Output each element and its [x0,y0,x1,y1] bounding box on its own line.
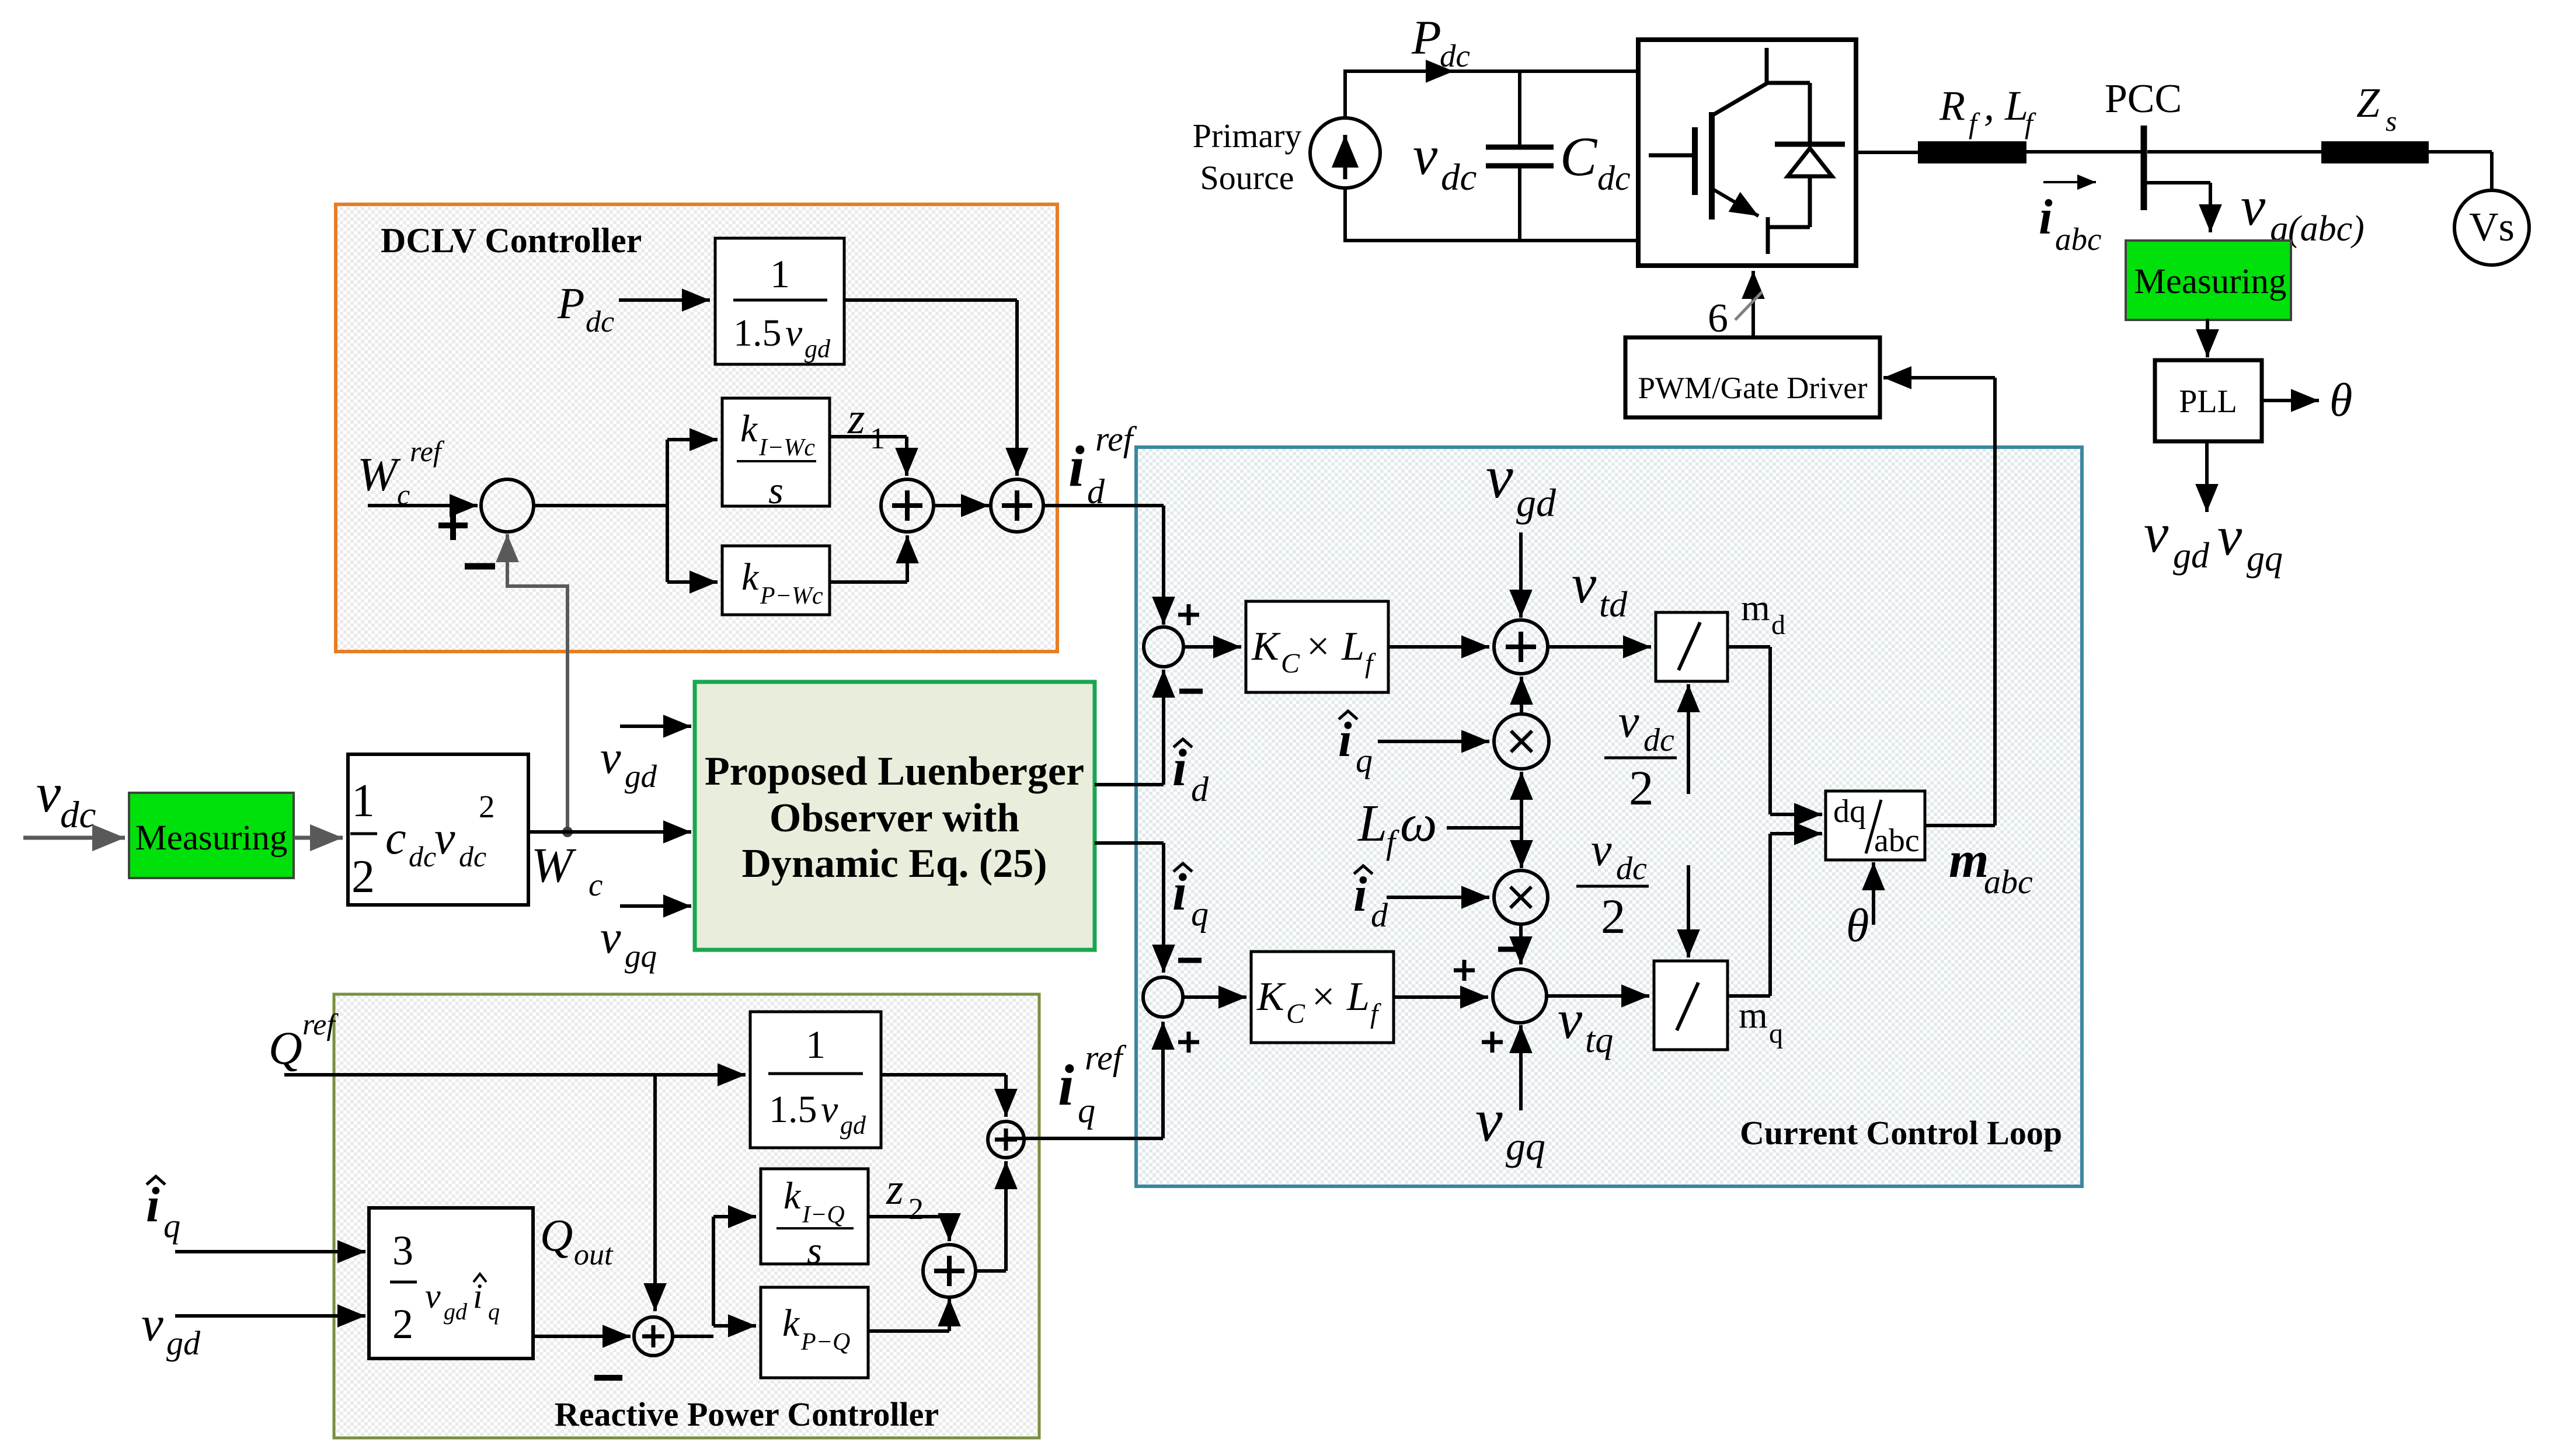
svg-text:Proposed Luenberger: Proposed Luenberger [705,749,1084,794]
svg-text:I−Wc: I−Wc [758,434,815,461]
svg-text:d: d [1771,609,1785,640]
svg-text:s: s [768,469,783,512]
svg-text:Reactive Power Controller: Reactive Power Controller [555,1395,939,1433]
svg-text:v: v [1486,443,1513,511]
svg-text:PCC: PCC [2105,76,2182,121]
svg-text:1: 1 [351,775,375,827]
svg-text:dq: dq [1833,793,1866,830]
svg-text:z: z [847,394,865,443]
svg-text:v: v [1475,1086,1503,1154]
svg-text:C: C [1281,648,1300,679]
svg-text:v: v [1591,824,1612,876]
svg-text:v: v [1572,553,1597,615]
svg-text:dc: dc [409,840,436,873]
svg-text:2: 2 [392,1301,413,1347]
svg-text:q: q [488,1298,500,1325]
svg-text:K: K [1251,624,1281,669]
svg-text:C: C [1286,998,1305,1029]
svg-text:Q: Q [269,1023,302,1074]
svg-text:1.5: 1.5 [769,1088,817,1131]
svg-text:Q: Q [540,1210,573,1260]
svg-text:Measuring: Measuring [2134,262,2287,301]
svg-text:DCLV Controller: DCLV Controller [381,221,642,260]
svg-text:Source: Source [1200,159,1294,197]
svg-text:ω: ω [1400,795,1437,852]
svg-text:K: K [1256,974,1286,1019]
svg-text:dc: dc [60,794,96,836]
svg-text:i: i [146,1178,160,1232]
svg-text:dc: dc [1643,722,1674,758]
svg-text:v: v [2217,505,2242,567]
svg-text:v: v [2144,502,2169,564]
svg-text:m: m [1949,832,1989,889]
svg-text:P: P [557,279,584,328]
svg-text:dc: dc [1597,159,1631,197]
svg-text:abc: abc [1984,863,2033,901]
svg-text:i: i [1338,712,1352,767]
svg-text:3: 3 [392,1227,413,1274]
svg-text:q: q [163,1207,180,1245]
svg-text:C: C [1560,126,1598,187]
svg-text:i: i [2039,190,2053,245]
svg-text:v: v [785,312,803,354]
svg-text:2: 2 [351,851,375,903]
svg-text:I−Q: I−Q [802,1201,845,1228]
svg-text:Observer with: Observer with [769,796,1019,841]
svg-text:v: v [600,912,621,963]
svg-text:k: k [740,407,758,450]
svg-text:abc: abc [1874,823,1920,859]
svg-text:L: L [1341,624,1364,669]
svg-text:Vs: Vs [2469,205,2515,250]
svg-text:1: 1 [770,252,790,296]
svg-text:1.5: 1.5 [733,312,782,354]
svg-text:i: i [1353,867,1367,922]
svg-text:R: R [1939,82,1965,129]
svg-text:dc: dc [586,305,614,339]
svg-text:×: × [1307,624,1329,669]
svg-text:Current Control Loop: Current Control Loop [1740,1114,2062,1152]
svg-text:v: v [425,1277,441,1315]
svg-text:P: P [1411,11,1441,64]
svg-text:Dynamic Eq. (25): Dynamic Eq. (25) [741,841,1047,886]
svg-text:v: v [2241,175,2266,237]
svg-text:gq: gq [2247,539,2283,579]
svg-text:PLL: PLL [2179,384,2237,420]
svg-text:gd: gd [166,1324,201,1362]
svg-text:v: v [1558,988,1583,1050]
svg-text:i: i [1058,1053,1074,1117]
svg-text:v: v [821,1088,838,1131]
svg-text:i: i [1068,434,1085,499]
svg-text:abc: abc [2055,221,2101,257]
svg-text:gd: gd [840,1111,866,1140]
svg-text:ref: ref [302,1008,339,1042]
svg-text:v: v [434,813,455,864]
svg-text:dc: dc [1616,851,1647,887]
svg-text:k: k [741,556,760,598]
svg-text:d: d [1371,896,1388,934]
svg-text:q: q [1078,1091,1095,1130]
svg-text:c: c [589,867,603,903]
svg-text:×: × [1312,974,1335,1019]
svg-text:2: 2 [1601,889,1626,944]
svg-text:dc: dc [1441,156,1477,198]
svg-text:k: k [782,1302,800,1344]
svg-text:Primary: Primary [1193,117,1302,155]
svg-text:gq: gq [1506,1124,1545,1168]
svg-text:6: 6 [1708,296,1728,341]
svg-text:q: q [1191,894,1209,933]
svg-text:q: q [1769,1018,1783,1049]
svg-text:2: 2 [479,789,495,824]
svg-text:θ: θ [1846,900,1869,952]
svg-text:gd: gd [2173,536,2210,576]
svg-text:gd: gd [805,335,831,363]
svg-text:1: 1 [806,1022,826,1067]
svg-text:W: W [531,838,577,893]
svg-text:Z: Z [2356,79,2380,126]
svg-text:ref: ref [1085,1039,1127,1077]
svg-text:k: k [783,1175,802,1217]
svg-text:θ: θ [2329,375,2352,426]
svg-text:Measuring: Measuring [135,818,288,858]
svg-text:1: 1 [870,422,885,455]
svg-text:gd: gd [625,758,657,794]
svg-text:ref: ref [1095,420,1137,458]
svg-text:tq: tq [1585,1020,1613,1060]
svg-text:s: s [2386,105,2397,137]
svg-text:L: L [1357,795,1387,852]
svg-text:dc: dc [459,840,486,873]
svg-text:P−Q: P−Q [800,1329,850,1356]
svg-text:v: v [141,1297,163,1351]
svg-text:q: q [1356,741,1373,779]
svg-text:d: d [1191,770,1209,809]
svg-text:v: v [600,732,621,783]
svg-text:v: v [1413,124,1438,186]
svg-text:v: v [1618,696,1639,747]
svg-text:s: s [807,1229,822,1272]
svg-text:PWM/Gate Driver: PWM/Gate Driver [1638,371,1868,405]
svg-text:td: td [1599,585,1628,625]
svg-text:v: v [36,762,61,824]
svg-text:2: 2 [1629,761,1654,816]
svg-text:dc: dc [1440,38,1470,74]
svg-text:L: L [1346,974,1370,1019]
svg-text:out: out [574,1238,614,1272]
svg-text:W: W [357,448,401,501]
svg-text:ref: ref [410,435,445,468]
svg-text:2: 2 [908,1193,924,1226]
svg-text:P−Wc: P−Wc [760,583,823,609]
svg-text:d: d [1087,472,1105,511]
svg-text:z: z [886,1165,904,1214]
svg-text:gq: gq [625,938,657,974]
svg-text:, L: , L [1984,82,2028,129]
svg-text:gd: gd [1516,480,1556,525]
svg-text:gd: gd [444,1298,468,1325]
svg-text:m: m [1741,587,1770,628]
svg-text:m: m [1739,994,1768,1036]
svg-text:c: c [385,813,406,864]
